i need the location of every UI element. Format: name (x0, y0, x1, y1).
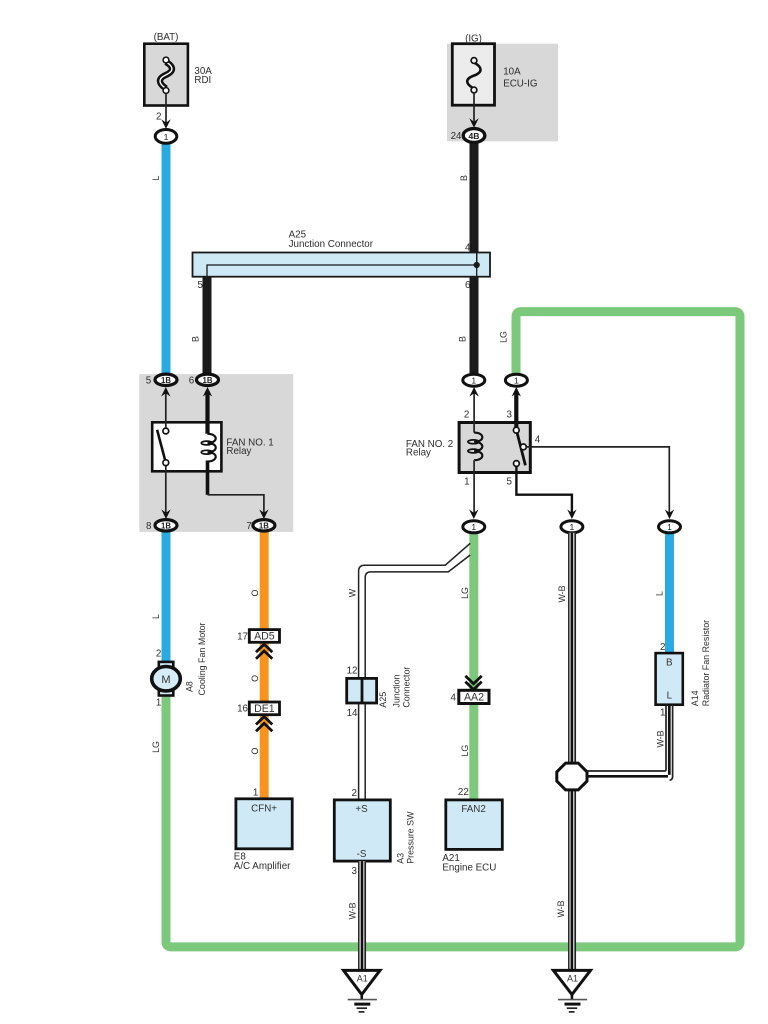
arrow up into relay1 oval 5 (161, 387, 170, 397)
svg-text:4: 4 (465, 242, 471, 253)
svg-text:5: 5 (146, 375, 152, 386)
ground A1 left (344, 970, 381, 1012)
svg-text:4: 4 (535, 435, 541, 446)
wire L relay1 pin8 to motor (162, 531, 171, 663)
fuse ECU-IG background panel (447, 44, 558, 142)
svg-text:6: 6 (189, 375, 195, 386)
svg-text:7: 7 (246, 521, 251, 532)
relay FAN NO.1 U-box (152, 422, 221, 471)
svg-text:A8: A8 (185, 681, 195, 692)
arrow down into relay2 pin5 oval (567, 509, 576, 519)
wire W-B relay2 pin5 to ground (568, 533, 576, 970)
motor pin numbers 2 1 (156, 649, 161, 709)
relay FAN NO.1 coil (201, 391, 264, 514)
svg-text:CFN+: CFN+ (251, 803, 277, 814)
svg-text:A14: A14 (690, 690, 700, 706)
svg-text:2: 2 (352, 788, 357, 799)
svg-text:A25: A25 (378, 692, 388, 708)
fuse RDI value label 30A RDI (194, 66, 212, 86)
splice octagon junction (557, 763, 587, 790)
connector oval 4B (463, 129, 485, 143)
relay2 connector oval pin2 (463, 374, 485, 386)
fuse ECU-IG value label 10A ECU-IG (503, 67, 537, 90)
relay2 connector oval pin1 bottom (463, 521, 485, 533)
svg-text:1: 1 (570, 522, 575, 532)
relay FAN NO.1 name label (226, 437, 273, 457)
ground A1 right (553, 970, 590, 1012)
svg-text:1B: 1B (259, 522, 269, 531)
wire L fuse RDI to relay1 pin5 (162, 143, 171, 375)
svg-text:22: 22 (458, 787, 469, 798)
svg-text:W-B: W-B (655, 730, 665, 747)
wire LG loop motor to relay2 pin3 (166, 312, 740, 947)
svg-text:LG: LG (499, 331, 509, 343)
svg-text:5: 5 (198, 280, 204, 291)
fuse 30A RDI (144, 44, 188, 126)
relay1 pin numbers 5 6 8 7 (146, 375, 252, 532)
connector AD5 chevrons (256, 644, 272, 659)
wire L relay2 pin4 to resistor (665, 533, 674, 655)
svg-text:(BAT): (BAT) (154, 32, 179, 43)
svg-text:L: L (151, 614, 161, 619)
svg-text:Relay: Relay (406, 448, 431, 459)
wire W-B pressure switch to ground (358, 861, 366, 970)
svg-text:W-B: W-B (557, 585, 567, 602)
wire LG relay2 pin1 to engine ECU (469, 533, 478, 802)
svg-text:B: B (458, 336, 468, 342)
connector DE1 box (249, 702, 279, 715)
svg-text:16: 16 (237, 704, 248, 715)
svg-text:4B: 4B (469, 131, 480, 141)
svg-text:Engine ECU: Engine ECU (442, 862, 496, 873)
wire B junction A25 pin6 to relay2 pin2 (470, 276, 479, 375)
connector AA2 chevrons (465, 676, 481, 690)
svg-text:A3: A3 (395, 853, 405, 864)
svg-text:+S: +S (355, 804, 368, 815)
svg-text:O: O (250, 747, 260, 754)
svg-text:B: B (191, 336, 201, 342)
relay FAN NO.2 switch (513, 391, 526, 466)
svg-text:Relay: Relay (226, 446, 251, 457)
junction A25 inline pin numbers 12 14 (347, 665, 358, 719)
svg-text:B: B (459, 175, 469, 181)
svg-text:1: 1 (471, 376, 476, 386)
relay1 connector oval 1B pin8 (155, 520, 177, 531)
wire B junction A25 pin5 to relay1 pin6 (203, 276, 212, 375)
wire relay2 pin5 elbow to oval (516, 466, 572, 514)
junction connector A25 bar (193, 253, 491, 277)
connector oval 1 (BAT wire) (155, 130, 177, 144)
svg-text:LG: LG (460, 587, 470, 599)
relay FAN NO.2 name label (406, 439, 453, 459)
svg-text:Cooling Fan Motor: Cooling Fan Motor (197, 622, 207, 695)
svg-text:W-B: W-B (556, 900, 566, 917)
svg-text:M: M (161, 674, 170, 686)
connector AA2 box (459, 690, 489, 703)
relay FAN NO.2 coil (468, 389, 482, 514)
svg-text:-S: -S (357, 849, 367, 860)
svg-text:2: 2 (156, 112, 161, 123)
svg-text:L: L (667, 690, 673, 701)
svg-text:1: 1 (164, 132, 169, 142)
A/C amplifier E8 box CFN+ (236, 799, 292, 849)
svg-text:Junction Connector: Junction Connector (289, 239, 374, 250)
arrow down into relay2 pin1 oval (469, 509, 478, 519)
pressure switch name label A3 Pressure SW (395, 811, 415, 864)
svg-text:1: 1 (471, 522, 476, 532)
relay2 connector oval pin5 bottom (561, 521, 583, 533)
arrow up into relay2 oval pin3 (512, 387, 521, 397)
svg-text:FAN2: FAN2 (461, 804, 486, 815)
svg-text:LG: LG (460, 745, 470, 757)
svg-text:3: 3 (352, 866, 358, 877)
svg-text:8: 8 (146, 521, 152, 532)
motor name label A8 Cooling Fan Motor (185, 622, 208, 695)
wire O relay1 pin7 to A/C amplifier (260, 531, 269, 800)
arrow into connector oval 1 (BAT) (161, 119, 170, 129)
svg-text:17: 17 (237, 631, 248, 642)
svg-text:1: 1 (667, 522, 672, 532)
arrow down into relay1 oval 8 (161, 509, 170, 519)
svg-text:2: 2 (660, 642, 665, 653)
svg-text:Connector: Connector (402, 667, 412, 708)
svg-text:A/C Amplifier: A/C Amplifier (234, 861, 291, 872)
svg-text:1: 1 (253, 788, 258, 799)
svg-text:4: 4 (451, 692, 457, 703)
pressure switch pin numbers 2 3 (352, 788, 358, 877)
svg-text:1: 1 (514, 376, 519, 386)
connector AD5 box (249, 630, 279, 643)
motor A8 cooling fan motor (152, 662, 181, 696)
relay1 connector oval 1B pin7 (253, 520, 275, 531)
junction A25 inline name label (378, 667, 411, 708)
svg-text:A1: A1 (357, 974, 368, 984)
svg-text:1: 1 (156, 698, 161, 709)
svg-text:AD5: AD5 (254, 631, 275, 643)
relay FAN NO.2 box (459, 423, 530, 473)
svg-text:LG: LG (151, 741, 161, 753)
junction connector A25 inline 12/14 (347, 678, 377, 703)
svg-text:W-B: W-B (347, 902, 357, 919)
radiator fan resistor A14 box (656, 653, 683, 705)
pressure switch A3 box (334, 800, 390, 861)
svg-text:3: 3 (506, 409, 512, 420)
svg-text:AA2: AA2 (464, 692, 484, 704)
svg-text:1B: 1B (161, 522, 171, 531)
svg-text:B: B (666, 658, 673, 669)
arrow down into relay1 oval 7 (259, 509, 268, 519)
arrow down into relay2 pin4 oval (665, 509, 674, 519)
arrow up into relay1 oval 6 (203, 387, 212, 397)
svg-text:6: 6 (465, 280, 471, 291)
arrow into connector oval 4B (469, 118, 478, 128)
engine ECU name label A21 Engine ECU (442, 853, 496, 873)
svg-text:12: 12 (347, 665, 358, 676)
wire W-B resistor to splice (587, 705, 673, 781)
svg-text:1B: 1B (161, 376, 171, 385)
wire relay2 pin4 elbow to oval (526, 447, 669, 514)
relay1 connector oval 1B pin6 (197, 374, 219, 385)
relay2 pin numbers 2 3 4 1 5 (464, 409, 541, 487)
svg-text:1: 1 (464, 476, 469, 487)
svg-text:W: W (347, 588, 357, 597)
svg-text:14: 14 (347, 708, 358, 719)
junction A25 name label (289, 230, 374, 251)
relay2 connector oval pin4 bottom (659, 521, 681, 533)
svg-text:Junction: Junction (392, 674, 402, 707)
svg-text:DE1: DE1 (254, 703, 275, 715)
resistor name label A14 Radiator Fan Resistor (690, 620, 711, 706)
svg-text:1: 1 (660, 708, 665, 719)
relay FAN NO.1 background panel (139, 374, 293, 532)
svg-text:O: O (250, 589, 260, 596)
relay FAN NO.1 switch (157, 389, 169, 514)
svg-text:5: 5 (506, 476, 512, 487)
svg-text:2: 2 (464, 409, 469, 420)
svg-text:10A: 10A (503, 67, 521, 78)
svg-text:1B: 1B (203, 376, 213, 385)
fuse 10A ECU-IG (452, 44, 494, 125)
arrow up into relay2 oval pin2 (469, 387, 478, 397)
svg-text:2: 2 (156, 649, 161, 660)
svg-text:L: L (654, 591, 664, 596)
connector DE1 chevrons (256, 717, 272, 732)
svg-text:(IG): (IG) (465, 34, 482, 45)
svg-text:Radiator Fan Resistor: Radiator Fan Resistor (701, 620, 711, 706)
resistor pin numbers 2 1 (660, 642, 665, 719)
junction A25 pin numbers 4 5 6 (198, 242, 472, 291)
engine ECU A21 box (446, 800, 503, 850)
wire W relay2 pin1 branch to pressure switch (359, 543, 471, 800)
wire B fuse ECU-IG to junction A25 pin4 (470, 143, 479, 254)
svg-text:Pressure SW: Pressure SW (406, 811, 416, 864)
relay1 connector oval 1B pin5 (155, 374, 177, 385)
A/C amplifier name label E8 (234, 852, 291, 872)
svg-text:RDI: RDI (194, 75, 211, 86)
svg-text:L: L (151, 175, 161, 180)
svg-text:A1: A1 (567, 974, 578, 984)
svg-text:ECU-IG: ECU-IG (503, 78, 537, 89)
svg-text:24: 24 (451, 131, 462, 142)
relay2 connector oval pin3 (505, 374, 527, 386)
svg-text:O: O (250, 675, 260, 682)
